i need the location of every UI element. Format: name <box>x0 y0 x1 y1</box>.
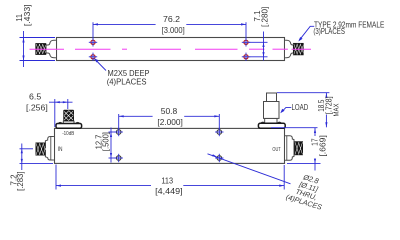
centerline top view <box>30 48 312 50</box>
svg-text:[.283]: [.283] <box>15 172 25 191</box>
svg-text:OUT: OUT <box>272 147 281 153</box>
mounting hole marker bottom-left (bottom view) <box>115 154 123 162</box>
dimension 6.5 [.256] <box>49 99 73 127</box>
mounting hole marker bottom-right (bottom view) <box>215 154 223 162</box>
svg-text:[.500]: [.500] <box>101 132 111 151</box>
M2 hole marker bottom-right <box>242 53 250 61</box>
body top view <box>57 38 285 61</box>
M2 hole marker top-right <box>242 38 250 46</box>
dimension 7.2 [.283] <box>20 144 54 171</box>
svg-text:6.5: 6.5 <box>29 92 41 102</box>
dimension 11 [.433] (top view height) <box>20 31 56 67</box>
svg-text:[.256]: [.256] <box>26 103 48 113</box>
IN connector flange (bottom view) <box>45 137 54 161</box>
left connector flange (top view) <box>46 40 56 57</box>
right connector threaded barrel (top view) <box>293 43 303 55</box>
svg-text:(3)PLACES: (3)PLACES <box>313 27 345 36</box>
svg-text:[2.000]: [2.000] <box>157 117 182 127</box>
OUT connector threaded barrel (bottom view) <box>294 141 303 155</box>
svg-text:LOAD: LOAD <box>292 103 309 112</box>
svg-text:76.2: 76.2 <box>163 14 180 24</box>
OUT connector flange (bottom view) <box>285 136 294 160</box>
label dia 2.8 thru 4 places <box>285 169 330 211</box>
mounting hole marker top-left (bottom view) <box>115 128 123 136</box>
right connector flange (top view) <box>285 40 295 57</box>
dimension 17 [.669] <box>271 128 321 171</box>
dimension 12.7 [.500] <box>109 128 117 163</box>
dimension 18.5 [.728] MAX <box>277 93 329 128</box>
svg-text:[.669]: [.669] <box>317 135 327 157</box>
svg-text:[.728]: [.728] <box>323 96 333 114</box>
svg-text:IN: IN <box>58 147 63 153</box>
body bottom view <box>55 128 285 163</box>
svg-text:MAX: MAX <box>333 103 340 116</box>
dimension 50.8 [2.000] <box>119 114 220 129</box>
dimension 7.1 [.280] <box>249 32 268 61</box>
port label LOAD with leader <box>281 107 291 112</box>
M2 hole marker bottom-left <box>89 53 97 61</box>
mounting hole marker top-right (bottom view) <box>215 128 223 136</box>
svg-text:-10dB: -10dB <box>62 131 75 137</box>
svg-text:113: 113 <box>161 175 173 185</box>
svg-text:[3.000]: [3.000] <box>162 25 185 35</box>
IN connector threaded barrel (bottom view) <box>36 143 46 156</box>
svg-text:(4)PLACES: (4)PLACES <box>107 77 147 86</box>
svg-text:[.280]: [.280] <box>260 7 270 27</box>
dimension 113 [4,449] <box>56 165 284 190</box>
LOAD connector (bottom view) <box>258 93 285 128</box>
svg-text:[4,449]: [4,449] <box>155 186 183 196</box>
leader TYPE 2.92mm <box>299 26 314 40</box>
left connector threaded barrel (top view) <box>36 43 46 54</box>
leader diameter 2.8 holes <box>208 154 291 184</box>
svg-text:50.8: 50.8 <box>161 106 178 116</box>
M2 hole marker top-left <box>89 38 97 46</box>
coupled port connector (bottom view, -10dB port) <box>56 110 82 128</box>
dimension 76.2 [3.000] <box>93 22 246 39</box>
svg-text:[.433]: [.433] <box>22 4 32 26</box>
leader M2X5 <box>94 59 106 71</box>
